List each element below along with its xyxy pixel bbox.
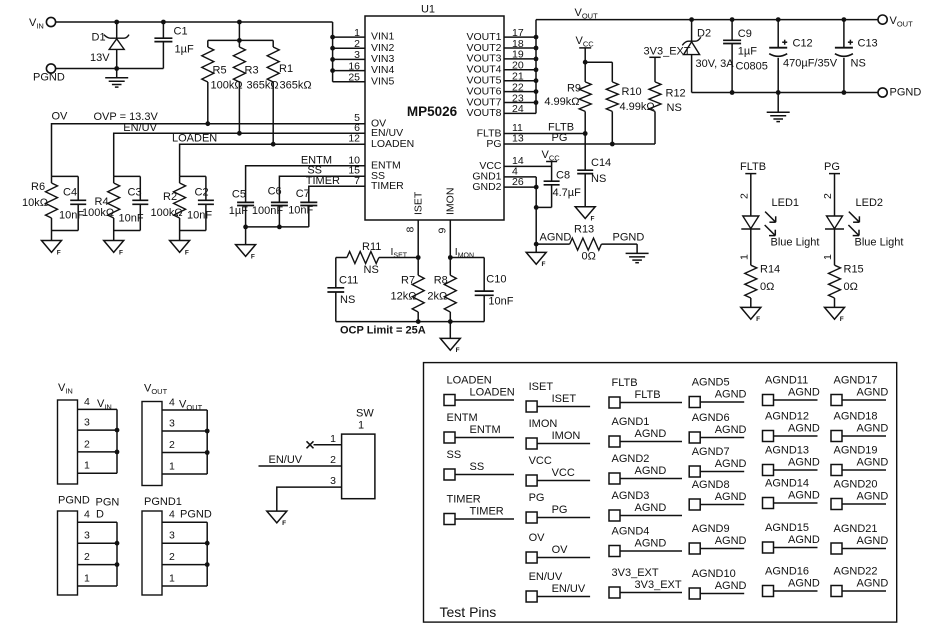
- svg-text:0Ω: 0Ω: [760, 281, 774, 293]
- svg-text:R15: R15: [844, 264, 864, 276]
- test pin PG: [526, 492, 590, 523]
- ground LED1: [741, 307, 761, 323]
- resistor R1 365k: [267, 40, 311, 144]
- test pin TIMER: [444, 494, 514, 525]
- no-connect X: [307, 441, 314, 448]
- net label IMON wire: [455, 246, 474, 259]
- svg-text:2: 2: [84, 438, 90, 450]
- net label ISET wire: [391, 246, 408, 259]
- test pin LOADEN: [444, 375, 515, 406]
- net label PGND R13: [613, 231, 645, 243]
- node ISET: [416, 255, 421, 260]
- svg-text:1µF: 1µF: [229, 205, 248, 217]
- wire R13 to PGND: [601, 243, 637, 245]
- svg-text:4: 4: [169, 396, 175, 408]
- net label J3 PGND wrapped: [96, 497, 120, 521]
- svg-text:R10: R10: [622, 86, 642, 98]
- svg-text:LOADEN: LOADEN: [447, 375, 492, 387]
- capacitor C7 10nF: [288, 188, 317, 227]
- svg-text:C6: C6: [268, 185, 282, 197]
- pin number 7: [354, 175, 360, 187]
- net label EN/UV: [123, 122, 157, 134]
- net label VOUT top: [575, 7, 599, 21]
- svg-text:AGND: AGND: [635, 537, 667, 549]
- svg-text:SW: SW: [356, 408, 374, 420]
- node divider top: [237, 38, 242, 43]
- wire SW pin1: [314, 444, 342, 446]
- terminal PGND input: [33, 64, 65, 84]
- node C9 top: [730, 17, 735, 22]
- node FLTB-R9: [583, 131, 588, 136]
- svg-text:AGND: AGND: [635, 502, 667, 514]
- node VIN-Rdivider: [237, 20, 242, 25]
- svg-text:C13: C13: [858, 37, 878, 49]
- label Blue Light 1: [771, 237, 820, 249]
- svg-text:R7: R7: [401, 275, 415, 287]
- svg-text:PGND: PGND: [890, 87, 922, 99]
- svg-text:100kΩ: 100kΩ: [82, 207, 114, 219]
- net label J1 VIN: [97, 398, 112, 412]
- svg-text:1: 1: [358, 420, 364, 432]
- svg-text:LED2: LED2: [856, 197, 884, 209]
- svg-text:PGN: PGN: [96, 497, 120, 509]
- test pin AGND11: [763, 375, 820, 406]
- net label TIMER: [306, 175, 340, 187]
- svg-text:FLTB: FLTB: [740, 161, 766, 173]
- wire PGND out rail: [692, 92, 878, 94]
- svg-text:F: F: [282, 520, 286, 527]
- svg-text:AGND9: AGND9: [692, 523, 730, 535]
- wire SS line: [279, 176, 365, 202]
- capacitor C13 NS: [835, 20, 878, 93]
- svg-text:ISET: ISET: [413, 191, 425, 215]
- svg-text:AGND: AGND: [857, 386, 889, 398]
- test pin IMON: [526, 418, 590, 449]
- test pin AGND7: [689, 446, 746, 477]
- svg-text:AGND: AGND: [715, 535, 747, 547]
- svg-text:AGND10: AGND10: [692, 568, 736, 580]
- svg-text:4: 4: [84, 396, 90, 408]
- svg-text:F: F: [251, 253, 255, 260]
- test pin AGND14: [763, 478, 820, 509]
- resistor R9 4.99k: [544, 62, 591, 133]
- svg-text:8: 8: [404, 227, 416, 233]
- svg-text:TIMER: TIMER: [371, 180, 404, 192]
- svg-text:3V3_EXT: 3V3_EXT: [644, 46, 691, 58]
- svg-text:LOADEN: LOADEN: [371, 138, 414, 150]
- label LED2: [856, 197, 884, 209]
- svg-text:VIN5: VIN5: [371, 75, 395, 87]
- capacitor C5 1uF: [229, 189, 254, 227]
- svg-text:AGND: AGND: [788, 577, 820, 589]
- svg-text:F: F: [185, 249, 189, 256]
- svg-text:3: 3: [84, 417, 90, 429]
- svg-text:AGND: AGND: [635, 428, 667, 440]
- node IMON: [448, 255, 453, 260]
- svg-text:2: 2: [822, 193, 834, 199]
- connector J2 VOUT: [142, 383, 210, 486]
- svg-text:ISET: ISET: [552, 393, 577, 405]
- svg-text:25: 25: [348, 72, 360, 84]
- test pin 3V3_EXT: [609, 567, 682, 598]
- svg-text:100kΩ: 100kΩ: [151, 207, 183, 219]
- ground C5: [236, 245, 256, 261]
- svg-text:R1: R1: [279, 63, 293, 75]
- node D2 top: [689, 17, 694, 22]
- svg-text:100nF: 100nF: [252, 205, 283, 217]
- value label OVP = 13.3V: [94, 111, 159, 123]
- svg-text:470µF/35V: 470µF/35V: [783, 58, 838, 70]
- test pin AGND4: [609, 526, 682, 557]
- wire OCP bottom rail: [336, 321, 484, 323]
- svg-text:R3: R3: [245, 65, 259, 77]
- power 3V3_EXT symbol: [644, 46, 691, 82]
- wire FLTB: [504, 133, 585, 135]
- svg-text:2: 2: [354, 38, 360, 50]
- svg-text:D2: D2: [697, 28, 711, 40]
- test pin ISET: [526, 381, 590, 412]
- svg-text:R8: R8: [434, 275, 448, 287]
- svg-text:PGND: PGND: [613, 231, 645, 243]
- resistor R10 4.99k: [606, 62, 654, 144]
- pin number SW1: [330, 433, 336, 445]
- node GND2 join: [534, 185, 539, 190]
- capacitor C10 10nF: [450, 258, 513, 322]
- svg-text:4.99kΩ: 4.99kΩ: [544, 96, 579, 108]
- svg-text:AGND: AGND: [857, 490, 889, 502]
- svg-text:Blue Light: Blue Light: [771, 237, 820, 249]
- svg-text:LOADEN: LOADEN: [470, 386, 515, 398]
- wire GND1 GND2: [504, 177, 536, 244]
- svg-text:PGND: PGND: [58, 495, 90, 507]
- svg-text:AGND: AGND: [857, 422, 889, 434]
- pin number 15: [348, 165, 360, 177]
- pin numbers VOUT 17-24: [512, 27, 524, 115]
- net label OV: [52, 111, 69, 123]
- svg-text:OCP Limit = 25A: OCP Limit = 25A: [340, 324, 426, 336]
- op-amp U1 MP5026 body: [365, 4, 504, 221]
- pin number 26: [512, 176, 524, 188]
- svg-text:TIMER: TIMER: [306, 175, 340, 187]
- svg-text:PG: PG: [552, 132, 568, 144]
- resistor R12 NS: [649, 82, 686, 144]
- svg-text:1: 1: [169, 572, 175, 584]
- svg-text:OV: OV: [52, 111, 69, 123]
- svg-text:3: 3: [330, 475, 336, 487]
- svg-text:F: F: [756, 316, 760, 323]
- svg-text:C14: C14: [591, 157, 611, 169]
- test pin AGND13: [763, 445, 820, 476]
- net label SS: [307, 165, 322, 177]
- svg-text:30V, 3A: 30V, 3A: [696, 58, 735, 70]
- pin number 11: [512, 122, 523, 134]
- svg-text:C9: C9: [738, 28, 752, 40]
- svg-text:PG: PG: [486, 138, 501, 150]
- pin number 6: [354, 122, 360, 134]
- terminal PGND out: [878, 87, 921, 99]
- svg-text:1µF: 1µF: [738, 46, 757, 58]
- svg-text:EN/UV: EN/UV: [529, 571, 563, 583]
- pin number 8: [404, 227, 416, 233]
- test pin SS: [444, 449, 514, 480]
- wire divider drop: [208, 22, 273, 40]
- svg-text:AGND20: AGND20: [834, 479, 878, 491]
- svg-text:13: 13: [512, 133, 524, 145]
- svg-text:C3: C3: [128, 187, 142, 199]
- net label J4 PGND: [180, 509, 212, 521]
- wire SW pin2 EN/UV: [259, 465, 342, 467]
- test pin ENTM: [444, 412, 514, 443]
- svg-text:AGND22: AGND22: [834, 566, 878, 578]
- svg-text:PG: PG: [824, 161, 840, 173]
- svg-text:10kΩ: 10kΩ: [22, 197, 48, 209]
- svg-text:0Ω: 0Ω: [844, 281, 858, 293]
- svg-text:R12: R12: [666, 88, 686, 100]
- svg-text:FLTB: FLTB: [635, 389, 661, 401]
- test pins box: [424, 363, 897, 622]
- wire LOADEN line: [180, 144, 365, 176]
- node VIN-D1: [114, 20, 119, 25]
- svg-text:AGND: AGND: [715, 388, 747, 400]
- svg-text:AGND7: AGND7: [692, 446, 730, 458]
- svg-text:AGND12: AGND12: [765, 411, 809, 423]
- svg-text:AGND4: AGND4: [612, 526, 650, 538]
- pin number SW3: [330, 475, 336, 487]
- test pin OV: [526, 532, 590, 563]
- svg-text:R13: R13: [574, 223, 594, 235]
- svg-text:C10: C10: [486, 274, 506, 286]
- svg-text:PGND1: PGND1: [144, 496, 182, 508]
- svg-text:10nF: 10nF: [288, 204, 313, 216]
- node C8 join: [534, 205, 539, 210]
- svg-text:TIMER: TIMER: [470, 505, 504, 517]
- svg-text:F: F: [591, 216, 595, 223]
- ground earth D1: [105, 69, 128, 88]
- svg-text:12: 12: [348, 133, 360, 145]
- svg-text:AGND18: AGND18: [834, 411, 878, 423]
- capacitor C12 470uF/35V: [769, 20, 838, 93]
- svg-text:10nF: 10nF: [488, 296, 513, 308]
- test pin AGND1: [609, 416, 682, 447]
- test pin AGND10: [689, 568, 746, 599]
- ground OCP: [440, 322, 460, 355]
- svg-text:C5: C5: [232, 189, 246, 201]
- capacitor C8 4.7uF: [536, 166, 581, 207]
- node VIN-C1: [161, 20, 166, 25]
- ground SW: [267, 511, 287, 527]
- svg-text:TIMER: TIMER: [447, 494, 481, 506]
- svg-text:2: 2: [169, 439, 175, 451]
- pin number 10: [348, 154, 360, 166]
- svg-text:1: 1: [84, 572, 90, 584]
- svg-text:VCC: VCC: [552, 467, 575, 479]
- svg-text:AGND: AGND: [857, 456, 889, 468]
- test pin AGND6: [689, 412, 746, 443]
- capacitor C6 100nF: [252, 185, 288, 227]
- test pin AGND12: [763, 411, 820, 442]
- svg-text:F: F: [542, 261, 546, 268]
- wire VIN pin bus: [330, 22, 365, 82]
- svg-text:GND2: GND2: [472, 181, 501, 193]
- node R1-LOADEN: [271, 142, 276, 147]
- capacitor C11 NS: [327, 258, 358, 322]
- svg-text:F: F: [456, 347, 460, 354]
- svg-text:13V: 13V: [90, 52, 110, 64]
- svg-text:AGND: AGND: [788, 534, 820, 546]
- wire VOUT pin bus: [504, 20, 536, 114]
- label LED1: [772, 197, 800, 209]
- ground earth R13: [626, 244, 649, 263]
- svg-text:2: 2: [330, 454, 336, 466]
- wire VIN rail: [56, 21, 333, 23]
- svg-text:12kΩ: 12kΩ: [391, 291, 417, 303]
- pin numbers VIN 1 2 3 16 25: [348, 27, 360, 84]
- test pin AGND22: [831, 566, 888, 597]
- node PG-R10: [610, 142, 615, 147]
- pin number SW2: [330, 454, 336, 466]
- pin number 9: [437, 228, 449, 234]
- svg-text:NS: NS: [667, 102, 682, 114]
- terminal VOUT: [878, 15, 913, 29]
- net label J2 VOUT: [179, 399, 203, 413]
- svg-text:1: 1: [169, 460, 175, 472]
- svg-text:3: 3: [84, 530, 90, 542]
- svg-text:FLTB: FLTB: [612, 377, 638, 389]
- svg-text:10nF: 10nF: [59, 210, 84, 222]
- resistor R7 12k: [391, 258, 425, 322]
- connector J1 VIN: [58, 382, 120, 484]
- power VCC pin symbol: [542, 149, 561, 166]
- net label EN/UV SW: [269, 454, 303, 466]
- node C6 gnd: [277, 225, 282, 230]
- svg-text:F: F: [57, 249, 61, 256]
- svg-text:NS: NS: [851, 58, 866, 70]
- svg-text:AGND6: AGND6: [692, 412, 730, 424]
- svg-text:2kΩ: 2kΩ: [427, 291, 447, 303]
- svg-text:3: 3: [169, 530, 175, 542]
- svg-text:OV: OV: [552, 544, 569, 556]
- svg-text:U1: U1: [421, 4, 435, 16]
- svg-text:1: 1: [84, 460, 90, 472]
- wire PG: [504, 143, 655, 145]
- svg-text:4.99kΩ: 4.99kΩ: [620, 101, 655, 113]
- svg-text:R5: R5: [213, 65, 227, 77]
- pin number 5: [354, 112, 360, 124]
- svg-text:D1: D1: [92, 32, 106, 44]
- node C12 bottom: [776, 90, 781, 95]
- svg-text:R6: R6: [31, 181, 45, 193]
- svg-text:R9: R9: [567, 83, 581, 95]
- ground AGND: [526, 244, 546, 268]
- svg-text:4: 4: [84, 509, 90, 521]
- svg-text:AGND: AGND: [540, 231, 572, 243]
- svg-text:VIN2: VIN2: [371, 42, 395, 54]
- svg-text:C1: C1: [174, 26, 188, 38]
- pin names U1: [371, 31, 502, 215]
- power VCC symbol: [576, 35, 595, 62]
- svg-text:2: 2: [169, 551, 175, 563]
- svg-text:C12: C12: [793, 37, 813, 49]
- node C5 gnd: [243, 225, 248, 230]
- svg-text:1: 1: [822, 254, 834, 260]
- svg-text:VCC: VCC: [529, 455, 552, 467]
- svg-text:F: F: [840, 316, 844, 323]
- test pin AGND16: [763, 566, 820, 597]
- test pin AGND9: [689, 523, 746, 554]
- resistor R8 2k: [427, 258, 456, 322]
- zener diode D1 13V: [90, 22, 129, 69]
- switch SW1 body: [342, 408, 375, 499]
- svg-text:AGND: AGND: [715, 580, 747, 592]
- svg-text:R11: R11: [362, 241, 381, 253]
- svg-text:C11: C11: [339, 275, 358, 287]
- svg-text:LED1: LED1: [772, 197, 800, 209]
- svg-text:R2: R2: [163, 191, 177, 203]
- svg-text:IMON: IMON: [529, 418, 558, 430]
- svg-text:AGND15: AGND15: [765, 522, 809, 534]
- test pin EN/UV: [526, 571, 590, 602]
- ground LED2: [825, 307, 845, 323]
- light arrows LED2: [848, 212, 859, 236]
- svg-text:EN/UV: EN/UV: [552, 583, 586, 595]
- node C12 top: [776, 17, 781, 22]
- wire SW pin3: [277, 487, 342, 511]
- svg-text:365kΩ: 365kΩ: [280, 80, 312, 92]
- test pin AGND17: [831, 375, 888, 406]
- svg-text:IMON: IMON: [552, 430, 581, 442]
- node R3-ENUV: [237, 131, 242, 136]
- svg-text:AGND: AGND: [788, 386, 820, 398]
- svg-text:MP5026: MP5026: [407, 104, 458, 119]
- test pin VCC: [526, 455, 590, 486]
- pin number 14: [512, 155, 524, 167]
- net label LOADEN: [172, 133, 217, 145]
- nodes VOUT bus: [534, 35, 539, 105]
- svg-text:4: 4: [169, 509, 175, 521]
- svg-text:EN/UV: EN/UV: [269, 454, 303, 466]
- node R5-OV: [205, 121, 210, 126]
- svg-text:AGND: AGND: [788, 489, 820, 501]
- wire AGND to R13: [536, 243, 570, 245]
- svg-text:AGND: AGND: [635, 465, 667, 477]
- resistor R5 100k: [202, 40, 243, 123]
- svg-text:3: 3: [169, 417, 175, 429]
- svg-text:C4: C4: [63, 187, 77, 199]
- svg-text:PGND: PGND: [180, 509, 212, 521]
- test pin AGND21: [831, 523, 888, 554]
- node R8 bottom: [448, 319, 453, 324]
- node C13 bottom: [842, 90, 847, 95]
- svg-text:24: 24: [512, 103, 524, 115]
- net label PG: [552, 132, 568, 144]
- label Blue Light 2: [855, 237, 904, 249]
- wire ISET pin: [417, 220, 419, 258]
- svg-text:AGND21: AGND21: [834, 523, 878, 535]
- svg-text:AGND14: AGND14: [765, 478, 809, 490]
- test pin AGND3: [609, 490, 682, 521]
- light arrows LED1: [765, 212, 776, 236]
- svg-text:AGND17: AGND17: [834, 375, 878, 387]
- node PGND-D1: [114, 66, 119, 71]
- wire C5 C6 C7 ground rail: [246, 227, 309, 245]
- pin number 12: [348, 133, 360, 145]
- ground C14: [575, 207, 595, 223]
- capacitor C14 NS: [577, 134, 611, 207]
- test pin AGND8: [689, 479, 746, 510]
- svg-text:AGND: AGND: [715, 424, 747, 436]
- svg-text:AGND5: AGND5: [692, 377, 730, 389]
- label Test Pins: [440, 604, 497, 620]
